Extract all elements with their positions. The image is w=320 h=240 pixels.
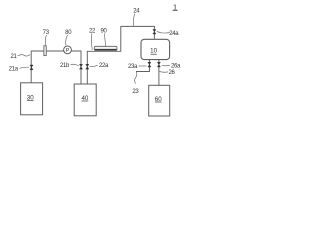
svg-text:10: 10 [150,48,157,55]
valve 24a [153,30,156,35]
label 22a [90,63,110,69]
label 24 [133,8,140,26]
tank 40 [74,84,96,116]
svg-text:21a: 21a [9,67,19,73]
valve 26a [157,62,160,67]
label 26 [159,70,175,76]
gauge P 80 [64,46,72,54]
valve 22a [86,64,89,69]
label 26a [162,64,182,70]
svg-text:80: 80 [65,30,72,36]
wire pipe 21 horizontal [31,51,81,84]
label 90 [100,28,107,47]
label 21 [10,54,30,60]
svg-text:21b: 21b [60,63,70,69]
valve 21a [30,65,33,70]
figure number 1 [173,3,178,12]
chamber box 10 [141,39,170,59]
svg-text:23a: 23a [128,64,138,70]
label 23a [128,64,146,70]
svg-text:P: P [66,48,70,54]
valve 21b [79,64,82,69]
svg-text:90: 90 [100,28,107,34]
filter 73 [44,46,46,56]
label 22 [89,28,96,50]
label 73 [43,30,50,45]
svg-text:24a: 24a [169,31,179,37]
svg-text:23: 23 [132,89,139,95]
wire pipe 23 stub [136,60,149,72]
wire pipe 22 run [87,26,154,84]
label 24a [157,31,180,37]
label 21a [9,67,29,73]
svg-text:24: 24 [133,8,140,14]
svg-text:26: 26 [168,70,175,76]
svg-text:22a: 22a [99,63,109,69]
label 23 [132,72,139,96]
valve 23a [148,62,151,67]
heater 90 [94,46,117,50]
label 21b [60,63,79,69]
tank 30 [21,83,43,115]
svg-text:26a: 26a [171,64,181,70]
tank 60 [149,85,170,116]
svg-text:21: 21 [10,54,17,60]
svg-text:22: 22 [89,28,96,34]
wire pipe 26 drop [158,60,160,86]
label 80 [65,30,72,45]
